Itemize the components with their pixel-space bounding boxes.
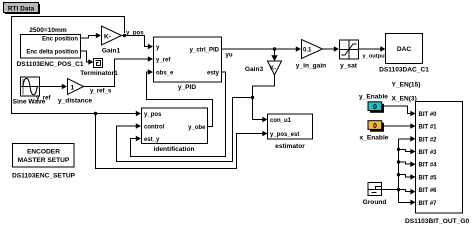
node junction bus BIT #5 xyxy=(397,173,400,176)
svg-text:DS1103BIT_OUT_G0: DS1103BIT_OUT_G0 xyxy=(405,218,469,225)
RTI Data button xyxy=(4,3,41,15)
block y_PID xyxy=(154,37,222,91)
block DAC DS1103DAC_C1 xyxy=(379,34,429,74)
node junction yu to Gain3 xyxy=(273,47,276,50)
wire y_Enable to BIT #0 xyxy=(382,106,416,116)
block Sine Wave xyxy=(13,77,46,106)
svg-text:MASTER SETUP: MASTER SETUP xyxy=(18,157,70,164)
svg-text:BIT #0: BIT #0 xyxy=(419,112,438,118)
node junction bus BIT #4 xyxy=(397,160,400,163)
svg-text:BIT #4: BIT #4 xyxy=(419,163,438,169)
svg-text:y_ref: y_ref xyxy=(156,57,171,63)
svg-text:0: 0 xyxy=(373,123,377,130)
svg-text:DS1103DAC_C1: DS1103DAC_C1 xyxy=(379,67,429,74)
svg-text:RTI Data: RTI Data xyxy=(8,6,35,13)
svg-text:Gain3: Gain3 xyxy=(245,66,264,73)
block Terminator1 xyxy=(80,59,118,78)
svg-text:BIT #2: BIT #2 xyxy=(419,137,438,143)
wire esty to est_y loop xyxy=(131,72,226,157)
wire Sine Wave to y_distance xyxy=(40,84,68,90)
wire y_sat to DAC xyxy=(359,46,386,52)
svg-text:ENCODER: ENCODER xyxy=(27,149,60,156)
svg-text:estimator: estimator xyxy=(275,143,305,150)
label X_EN(3) xyxy=(392,96,417,103)
svg-text:y_pos_est: y_pos_est xyxy=(270,132,299,138)
svg-text:Y_EN(15): Y_EN(15) xyxy=(392,82,421,89)
svg-text:y_ref: y_ref xyxy=(36,95,52,102)
block identification xyxy=(142,108,208,153)
svg-text:DAC: DAC xyxy=(397,46,412,53)
svg-text:BIT #5: BIT #5 xyxy=(419,175,438,181)
wire Enc position to Gain1 xyxy=(81,33,102,39)
node junction bus BIT #3 xyxy=(397,148,400,151)
gain y_distance xyxy=(58,79,92,105)
label y_pos wire xyxy=(126,30,144,37)
svg-text:Enc position: Enc position xyxy=(42,37,78,43)
svg-text:y_output: y_output xyxy=(363,54,387,60)
svg-text:y_pos: y_pos xyxy=(144,112,162,118)
constant x_Enable (orange) xyxy=(368,121,384,132)
label x_Enable xyxy=(360,135,389,142)
wire bus branch BIT #7 xyxy=(399,200,416,206)
wire y_distance to y_PID y_ref xyxy=(84,56,154,86)
node junction ground bus xyxy=(397,188,400,191)
block DS1103ENC_POS_C1 xyxy=(16,35,83,69)
svg-text:Ground: Ground xyxy=(363,199,387,206)
svg-text:y_ctrl_PID: y_ctrl_PID xyxy=(190,47,220,53)
wire bus branch BIT #3 xyxy=(399,149,416,155)
svg-text:x_Enable: x_Enable xyxy=(360,135,389,142)
svg-text:DS1103ENC_POS_C1: DS1103ENC_POS_C1 xyxy=(16,61,83,68)
svg-text:y_obe: y_obe xyxy=(188,125,206,131)
svg-text:y_PID: y_PID xyxy=(178,84,197,91)
label Y_EN(15) xyxy=(392,82,421,89)
svg-text:K-: K- xyxy=(104,34,111,41)
svg-text:y_ref_s: y_ref_s xyxy=(90,88,112,95)
constant y_Enable (teal) xyxy=(368,102,384,113)
node junction Gain3 path to control loop xyxy=(251,96,254,99)
svg-text:Terminator1: Terminator1 xyxy=(80,70,118,77)
wire x_Enable to BIT #1 xyxy=(382,123,416,129)
svg-text:identification: identification xyxy=(153,146,194,153)
gain y_in_gain xyxy=(296,40,326,70)
svg-text:esty: esty xyxy=(207,71,220,77)
svg-text:con_u1: con_u1 xyxy=(270,118,292,124)
wire bit bus vertical xyxy=(398,139,400,203)
wire y_pos feedback outer loop xyxy=(12,17,142,117)
wire bus branch BIT #6 xyxy=(399,189,416,195)
block y_sat (saturation) xyxy=(340,40,359,70)
wire y_pos junction to estimator y_pos_est xyxy=(96,114,268,169)
label 2500=10mm xyxy=(29,27,67,34)
gain Gain3 (points down) xyxy=(245,61,282,75)
svg-text:2500=10mm: 2500=10mm xyxy=(29,27,67,34)
label y_Enable xyxy=(359,94,388,101)
svg-text:obs_e: obs_e xyxy=(156,71,174,77)
svg-text:Enc delta position: Enc delta position xyxy=(26,50,78,56)
svg-text:0.1: 0.1 xyxy=(303,48,312,54)
svg-text:1: 1 xyxy=(71,85,75,92)
wire Gain1 to y_PID y input xyxy=(122,36,154,50)
label yu wire xyxy=(226,52,233,59)
svg-text:Gain1: Gain1 xyxy=(102,48,121,55)
svg-text:BIT #3: BIT #3 xyxy=(419,150,438,156)
block Ground xyxy=(363,183,387,207)
block DS1103BIT_OUT_G0 xyxy=(405,102,469,226)
label y_output wire xyxy=(363,54,387,60)
svg-text:yu: yu xyxy=(226,52,233,59)
node junction y_pos to estimator drop xyxy=(94,112,97,115)
block ENCODER MASTER SETUP xyxy=(12,144,76,180)
svg-text:y_Enable: y_Enable xyxy=(359,94,388,101)
wire y_in_gain to y_sat xyxy=(323,46,340,52)
svg-text:BIT #1: BIT #1 xyxy=(419,125,438,131)
svg-text:y_distance: y_distance xyxy=(58,98,92,105)
wire bus branch BIT #4 xyxy=(399,161,416,167)
label y_ref_s wire xyxy=(90,88,112,95)
svg-text:y_sat: y_sat xyxy=(340,63,358,70)
svg-text:y_in_gain: y_in_gain xyxy=(296,63,326,70)
wire yu junction down into Gain3 xyxy=(271,49,277,61)
svg-text:BIT #6: BIT #6 xyxy=(419,188,438,194)
label y_ref wire xyxy=(36,95,52,102)
svg-text:DS1103ENC_SETUP: DS1103ENC_SETUP xyxy=(12,173,76,180)
svg-text:X_EN(3): X_EN(3) xyxy=(392,96,417,103)
wire y_obe to obs_e loop xyxy=(147,69,213,126)
block estimator xyxy=(268,114,313,150)
svg-text:BIT #7: BIT #7 xyxy=(419,201,438,207)
wire control loop from junction to identification control xyxy=(117,98,253,162)
svg-text:y_pos: y_pos xyxy=(126,30,144,37)
svg-text:0: 0 xyxy=(373,104,377,111)
svg-text:control: control xyxy=(144,125,165,131)
node junction at Gain1 output xyxy=(123,34,126,37)
wire Enc delta position to Terminator1 xyxy=(81,51,94,65)
svg-text:K-: K- xyxy=(270,66,276,72)
wire Gain3 to estimator con_u1 xyxy=(253,75,275,122)
wire bus branch BIT #5 xyxy=(399,174,416,180)
gain Gain1 xyxy=(102,26,122,55)
wire bus branch BIT #2 xyxy=(399,136,416,142)
wire y_ctrl_PID to y_in_gain xyxy=(222,46,302,52)
svg-text:est_y: est_y xyxy=(144,137,160,143)
wire Ground to bit bus xyxy=(381,189,399,191)
